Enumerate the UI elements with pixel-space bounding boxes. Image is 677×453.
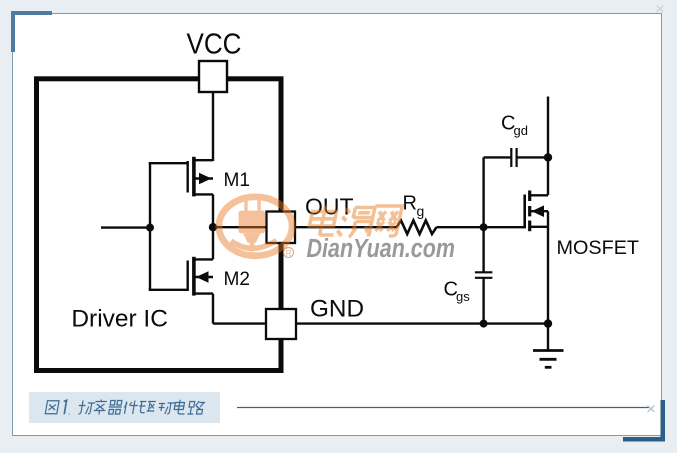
decorative x mark at rule end [648, 406, 655, 413]
svg-text:MOSFET: MOSFET [557, 237, 640, 259]
transistor Q1 arrow [532, 205, 545, 217]
node OUT pad [267, 212, 296, 244]
junction node D (Cgd / drain rail) [544, 153, 552, 161]
svg-text:M2: M2 [224, 268, 251, 290]
char 网 [369, 206, 402, 236]
char 源 [336, 209, 350, 237]
char 动 [157, 403, 175, 414]
transistor M2 drain stub [193, 258, 213, 260]
svg-text:Driver IC: Driver IC [71, 306, 167, 333]
wire Cgd left leg [482, 157, 484, 227]
transistor Q1 gate bar [523, 195, 526, 229]
svg-text:M1: M1 [224, 169, 251, 191]
decorative x mark top-right [657, 6, 664, 13]
transistor Q1 drain stub [530, 194, 548, 196]
wire gate node to Q1 gate [484, 226, 526, 228]
junction node C (Rg / Cgd / Cgs / gate) [480, 223, 488, 231]
char 驱 [138, 402, 156, 413]
frame accent top-left L [11, 11, 52, 52]
svg-text:GND: GND [310, 296, 364, 323]
transistor M2 gate bar [186, 261, 188, 292]
watermark registered mark [284, 248, 294, 258]
node VCC pad [199, 61, 227, 92]
char 率 [93, 400, 107, 415]
svg-text:gd: gd [514, 123, 528, 138]
wire VCC pad to M1 drain [212, 91, 214, 161]
transistor M1 source stub [193, 193, 213, 195]
watermark logo (ring + plug) [219, 197, 292, 256]
transistor M2 arrow [196, 271, 209, 282]
wire input stub [101, 226, 150, 228]
ground bars [533, 349, 564, 352]
capacitor Cgs plates [475, 271, 493, 273]
wire M2 source to GND rail [212, 294, 214, 324]
wire M1 source to M2 drain [212, 194, 214, 259]
svg-text:DianYuan.com: DianYuan.com [307, 235, 456, 263]
svg-text:VCC: VCC [187, 29, 242, 61]
svg-text:R: R [403, 193, 417, 215]
capacitor Cgd plates [510, 148, 512, 167]
char 电 [320, 206, 340, 236]
char 件 [123, 401, 139, 415]
char 图 [45, 401, 59, 414]
transistor Q1 body line [530, 210, 548, 212]
resistor Rg [397, 220, 437, 234]
wire GND rail [213, 322, 548, 324]
frame accent bottom-right L [623, 400, 665, 442]
transistor Q1 channel segments [528, 191, 531, 202]
caption background [29, 392, 220, 423]
svg-text:gs: gs [456, 289, 470, 304]
wire node to OUT pad [213, 226, 267, 228]
junction node A (gate rail / input) [146, 224, 154, 232]
char 功 [77, 401, 95, 415]
wire OUT to resistor [295, 226, 397, 228]
wire resistor to gate node [437, 226, 484, 228]
wire M2 gate connect [149, 289, 188, 291]
watermark chinese chars 电源网 (outline) [307, 206, 402, 238]
node GND pad [266, 309, 296, 339]
ground stem [547, 324, 549, 351]
svg-text:g: g [417, 203, 425, 219]
capacitor Cgd right lead [517, 156, 548, 158]
char 器 [108, 401, 123, 415]
svg-text:R: R [286, 249, 292, 258]
transistor M1 gate bar [186, 161, 188, 193]
wire M1 gate connect [149, 162, 188, 164]
wire Cgs leg bottom [482, 278, 484, 324]
transistor Q1 source stub [530, 226, 548, 228]
junction node F (source / GND rail) [544, 319, 552, 327]
transistor M2 channel bar [192, 257, 196, 296]
wire gate rail [149, 162, 151, 291]
caption rule line [237, 407, 650, 409]
char 电 [173, 400, 186, 414]
transistor M1 body line [194, 177, 213, 179]
junction node B (M1 source / M2 drain / OUT) [209, 223, 217, 231]
junction node E (Cgs / GND rail) [480, 320, 488, 328]
wire drain rail [547, 97, 549, 196]
driver IC box U1 [37, 79, 282, 371]
char 路 [187, 401, 204, 414]
transistor M2 source stub [193, 292, 213, 294]
capacitor Cgd left lead [484, 156, 512, 158]
wire Cgs leg top [482, 227, 484, 272]
caption text 图 1. 功率器件驱动电路 [45, 400, 204, 415]
text 1. [62, 400, 72, 414]
transistor M2 body line [194, 276, 213, 278]
wire Q1 source rail [547, 211, 549, 323]
transistor M1 arrow [199, 173, 212, 184]
transistor M1 channel bar [192, 157, 196, 197]
transistor M1 drain stub [193, 159, 213, 161]
